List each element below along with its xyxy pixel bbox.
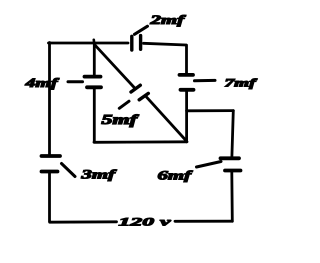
svg-text:2mf: 2mf — [149, 13, 187, 27]
wire top-left horizontal — [49, 42, 129, 45]
capacitor C7 7mf plates — [180, 73, 194, 77]
wire right branch vertical lower — [230, 172, 233, 221]
wire inner-right vertical lower — [185, 92, 188, 142]
svg-text:7mf: 7mf — [225, 76, 258, 90]
svg-text:3mf: 3mf — [80, 167, 118, 182]
wire diagonal lower segment — [146, 97, 186, 141]
capacitor C4 4mf plates — [85, 75, 101, 79]
capacitor C1 2mf plates — [130, 36, 133, 50]
svg-text:120 v: 120 v — [119, 215, 172, 229]
wire diagonal upper segment — [95, 45, 134, 87]
svg-text:4mf: 4mf — [24, 75, 60, 90]
junction stub at top of diagonal — [93, 40, 96, 44]
wire left outer vertical upper — [48, 43, 51, 155]
capacitor C5 5mf plate 1 — [131, 85, 140, 92]
wire right connector horizontal — [187, 109, 234, 112]
svg-text:5mf: 5mf — [102, 113, 140, 128]
wire top-right horizontal — [144, 43, 187, 45]
wire inner-left vertical upper — [93, 43, 96, 75]
capacitor C5 5mf plate 2 — [139, 93, 148, 99]
wire inner-right vertical upper — [185, 45, 188, 73]
wire right branch vertical upper — [232, 111, 233, 157]
leader dash to 6mf label — [197, 162, 222, 168]
wire inner bottom edge — [94, 140, 187, 143]
svg-text:6mf: 6mf — [158, 168, 194, 183]
leader line to 3mf label — [62, 164, 76, 177]
leader dash to 4mf label — [68, 80, 83, 83]
leader line to 2mf label — [135, 26, 148, 34]
capacitor C6 6mf plates — [221, 156, 240, 160]
leader dash to 7mf label — [195, 79, 216, 82]
wire inner-left vertical lower — [93, 89, 96, 142]
leader dash to 5mf label — [119, 101, 129, 108]
wire bottom right segment — [175, 220, 232, 223]
wire bottom left segment — [50, 220, 117, 223]
wire left outer vertical lower — [48, 174, 51, 222]
capacitor C3 3mf plates — [42, 154, 61, 158]
